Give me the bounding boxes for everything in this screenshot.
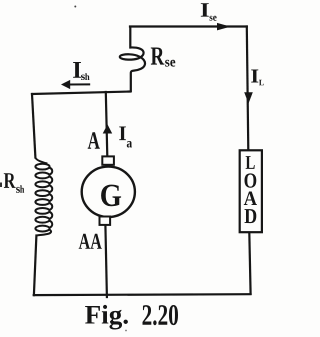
wire left upper xyxy=(32,94,35,158)
wire bottom xyxy=(34,293,251,296)
label IL xyxy=(251,70,258,83)
label A xyxy=(244,192,257,206)
label A top brush xyxy=(88,132,100,148)
arrow IL load current on right wire xyxy=(244,92,253,103)
speck left edge xyxy=(0,183,2,188)
speck below caption xyxy=(125,330,127,332)
label Ish xyxy=(73,62,81,78)
arrow Ia armature current xyxy=(103,124,113,133)
label G xyxy=(101,185,121,207)
label Rsh xyxy=(4,173,16,188)
wire left lower xyxy=(34,236,37,296)
wire shunt horizontal xyxy=(32,92,131,95)
speck top xyxy=(74,6,76,8)
label Ise xyxy=(201,3,209,16)
label Rse xyxy=(151,48,165,65)
arrow Ise current direction on top wire xyxy=(217,23,231,31)
wire right lower xyxy=(249,232,250,294)
wire right upper xyxy=(247,27,249,151)
caption Fig. 2.20 xyxy=(85,305,128,330)
brush terminal A top square xyxy=(102,156,114,164)
arrow Ish shunt current above wire xyxy=(70,83,91,85)
label O xyxy=(245,173,257,187)
brush terminal AA bottom square xyxy=(100,217,111,225)
wire top xyxy=(130,25,247,27)
LOAD box xyxy=(240,150,262,232)
coil Rse series field winding xyxy=(120,27,145,93)
coil Rsh shunt field winding xyxy=(35,158,52,236)
label Ia xyxy=(119,127,126,141)
label L xyxy=(246,156,255,169)
wire armature top xyxy=(106,92,108,156)
label D xyxy=(245,209,257,223)
generator G armature circle xyxy=(82,167,135,217)
wire armature bottom xyxy=(105,225,107,297)
label AA bottom brush xyxy=(79,234,102,249)
